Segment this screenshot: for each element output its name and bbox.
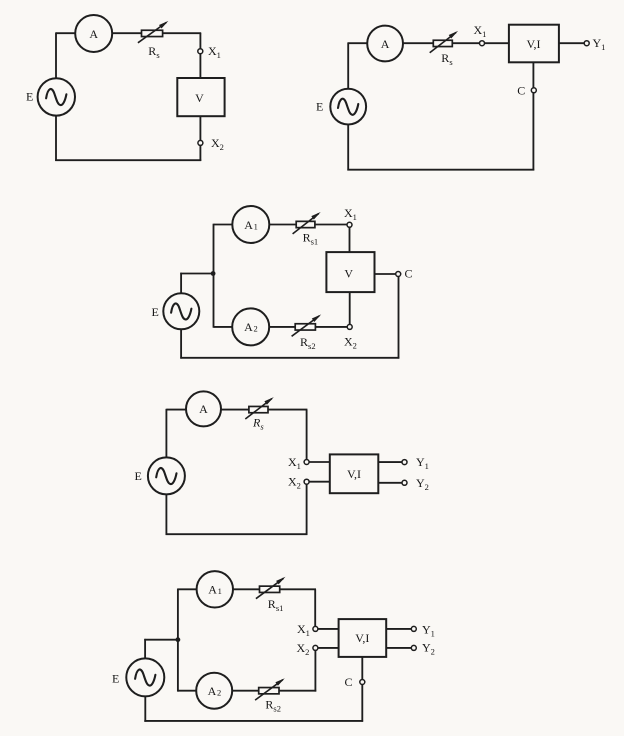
node Y1 (circuit 5) — [411, 626, 416, 631]
wire c4 X2-to-bottom — [306, 484, 308, 535]
label Rs1 (circuit 3) — [303, 231, 319, 247]
svg-text:X1: X1 — [344, 206, 357, 222]
voltmeter box V (circuit 3) — [326, 252, 374, 292]
svg-text:E: E — [26, 90, 33, 104]
wire c2 left vertical lower — [347, 124, 349, 170]
AC source E (circuit 2) — [330, 89, 366, 125]
wire c2 C-to-bottom — [532, 93, 534, 171]
svg-text:E: E — [135, 469, 142, 483]
svg-text:E: E — [152, 305, 159, 319]
label Y2 (circuit 5) — [422, 641, 435, 657]
node X2 (circuit 1) — [198, 140, 203, 145]
svg-text:X2: X2 — [211, 136, 224, 152]
wire c3 E vertical upper — [180, 273, 182, 294]
svg-text:A: A — [199, 402, 208, 416]
svg-text:X1: X1 — [474, 23, 487, 39]
wire c2 left vertical upper — [347, 42, 349, 89]
svg-text:X1: X1 — [208, 44, 221, 60]
wire c1 bottom — [55, 159, 201, 161]
node Y1 (circuit 4) — [402, 460, 407, 465]
label Rs2 (circuit 5) — [265, 698, 281, 714]
wire c4 X2-to-box — [309, 481, 330, 483]
svg-text:1: 1 — [254, 221, 258, 231]
wire c3 E vertical lower — [180, 329, 182, 358]
label X1 (circuit 2) — [474, 23, 487, 39]
label Y2 (circuit 4) — [416, 476, 429, 492]
svg-text:A: A — [208, 684, 217, 698]
label E (circuit 2) — [316, 99, 323, 113]
svg-text:A: A — [244, 320, 253, 334]
variable resistor Rs (circuit 2) — [430, 31, 458, 53]
wire c5 junction-to-E — [144, 639, 178, 641]
ammeter A1 (circuit 5) — [197, 571, 233, 607]
label Rs (circuit 2) — [441, 51, 452, 67]
node X1 (circuit 2) — [480, 41, 485, 46]
wire c5 E vertical lower — [144, 696, 146, 722]
node X1 (circuit 5) — [313, 626, 318, 631]
wire c5 box-to-C — [361, 657, 363, 680]
node C (circuit 2) — [531, 88, 536, 93]
svg-text:2: 2 — [217, 688, 221, 698]
svg-text:X2: X2 — [344, 335, 357, 351]
wire c4 box-to-Y2 — [378, 482, 402, 484]
wire c1 X1-to-Vbox — [199, 53, 201, 78]
wire c3 Rs2-to-X2 — [315, 326, 347, 328]
wire c3 X2-to-Vbox — [349, 292, 351, 325]
wire c4 left vertical lower — [165, 494, 167, 535]
node X2 (circuit 5) — [313, 645, 318, 650]
svg-text:Rs2: Rs2 — [300, 335, 316, 351]
label X1 (circuit 5) — [297, 622, 310, 638]
ammeter A (circuit 2) — [367, 26, 403, 62]
node Y2 (circuit 5) — [411, 645, 416, 650]
wire c3 Rs1-to-X1 — [315, 224, 347, 226]
wire c4 right vertical to X1 — [306, 410, 308, 460]
node X1 (circuit 4) — [304, 460, 309, 465]
wire c5 top branch left — [178, 588, 197, 590]
svg-text:X2: X2 — [288, 475, 301, 491]
wire c5 corner-to-X1 — [314, 589, 316, 626]
wire c4 bottom — [166, 533, 308, 535]
measuring box V,I (circuit 5) — [339, 619, 387, 657]
wire c1 X2-to-bottom — [199, 145, 201, 161]
wire c3 junction-to-E — [180, 273, 213, 275]
AC source E (circuit 4) — [148, 457, 185, 494]
ammeter A2 (circuit 5) — [196, 673, 232, 709]
svg-text:A: A — [244, 218, 253, 232]
wire c3 C-to-bottom — [398, 276, 400, 358]
svg-text:E: E — [112, 672, 119, 686]
svg-text:C: C — [345, 675, 353, 689]
wire c3 lower branch left — [214, 326, 232, 328]
wire c5 X2-to-box — [318, 647, 339, 649]
wire c1 A-to-Rs — [112, 32, 141, 34]
variable resistor Rs (circuit 4) — [245, 397, 273, 419]
label E (circuit 5) — [112, 672, 119, 686]
node X1 (circuit 1) — [198, 49, 203, 54]
label E (circuit 3) — [152, 305, 159, 319]
node C (circuit 3) — [396, 272, 401, 277]
ammeter A1 (circuit 3) — [232, 206, 269, 243]
svg-text:A: A — [89, 27, 98, 41]
wire c5 C-to-bottom — [361, 684, 363, 722]
svg-text:X1: X1 — [288, 455, 301, 471]
label C (circuit 5) — [345, 675, 353, 689]
wire c5 X2-down — [314, 650, 316, 692]
wire c2 box-to-Y1 — [559, 42, 585, 44]
label Y1 (circuit 2) — [593, 36, 606, 52]
label E (circuit 4) — [135, 469, 142, 483]
AC source E (circuit 1) — [38, 78, 75, 115]
label X2 (circuit 5) — [297, 641, 310, 657]
wire c5 box-to-Y2 — [386, 647, 411, 649]
label Y1 (circuit 4) — [416, 455, 429, 471]
variable resistor Rs2 (circuit 5) — [255, 678, 285, 700]
wire c3 X1-to-Vbox — [349, 227, 351, 252]
wire c1 left vertical upper — [55, 32, 57, 78]
wire c5 Rs2-to-corner — [279, 690, 316, 692]
wire c4 top E-to-A — [166, 409, 186, 411]
node Y1 (circuit 2) — [584, 41, 589, 46]
svg-text:Rs: Rs — [148, 44, 159, 60]
svg-text:C: C — [517, 84, 525, 98]
label E (circuit 1) — [26, 90, 33, 104]
svg-text:Rs2: Rs2 — [265, 698, 281, 714]
node Y2 (circuit 4) — [402, 480, 407, 485]
wire c3 mid vertical — [213, 224, 215, 328]
variable resistor Rs1 (circuit 3) — [293, 212, 321, 234]
junction dot (circuit 3) — [211, 271, 216, 276]
voltmeter box V (circuit 1) — [177, 78, 224, 116]
label Y1 (circuit 5) — [422, 622, 435, 638]
label Rs (circuit 4) — [252, 416, 264, 432]
variable resistor Rs2 (circuit 3) — [292, 314, 322, 336]
label X1 (circuit 1) — [208, 44, 221, 60]
wire c2 Rs-to-X1 — [452, 42, 480, 44]
wire c4 box-to-Y1 — [378, 461, 402, 463]
wire c5 lower branch left — [178, 690, 197, 692]
label X2 (circuit 4) — [288, 475, 301, 491]
wire c4 left vertical upper — [165, 409, 167, 458]
ammeter A2 (circuit 3) — [232, 308, 269, 345]
wire c5 Rs1-to-corner — [280, 588, 316, 590]
wire c5 box-to-Y1 — [386, 628, 411, 630]
node X2 (circuit 4) — [304, 479, 309, 484]
wire c2 box-to-C — [532, 62, 534, 88]
wire c5 E vertical upper — [144, 639, 146, 659]
svg-text:X2: X2 — [297, 641, 310, 657]
measuring box V,I (circuit 4) — [330, 454, 379, 493]
svg-text:A: A — [381, 37, 390, 51]
wire c5 A2-to-Rs2 — [232, 690, 259, 692]
node C (circuit 5) — [360, 680, 365, 685]
variable resistor Rs1 (circuit 5) — [256, 577, 286, 599]
svg-text:V: V — [344, 267, 353, 281]
label Rs (circuit 1) — [148, 44, 159, 60]
wire c1 right vertical to X1 — [199, 33, 201, 49]
wire c3 A2-to-Rs2 — [270, 326, 296, 328]
ammeter A (circuit 1) — [75, 15, 112, 52]
label X1 (circuit 4) — [288, 455, 301, 471]
label C (circuit 3) — [405, 267, 413, 281]
svg-text:Rs1: Rs1 — [303, 231, 319, 247]
svg-text:Y1: Y1 — [422, 622, 435, 638]
AC source E (circuit 3) — [163, 293, 199, 329]
wire c5 branch vertical — [177, 589, 179, 692]
wire c1 Rs-to-corner — [163, 32, 202, 34]
wire c5 X1-to-box — [318, 628, 339, 630]
wire c1 Vbox-to-X2 — [199, 116, 201, 141]
wire c3 Vbox-to-C — [375, 273, 397, 275]
wire c2 top E-to-A — [348, 42, 367, 44]
svg-text:Y2: Y2 — [416, 476, 429, 492]
wire c5 bottom — [144, 720, 363, 722]
wire c2 bottom — [347, 169, 534, 171]
wire c1 top segment E-to-A — [56, 32, 75, 34]
wire c2 X1-to-box — [484, 42, 509, 44]
svg-text:Rs: Rs — [252, 416, 264, 432]
svg-text:X1: X1 — [297, 622, 310, 638]
svg-text:V,I: V,I — [355, 631, 369, 645]
svg-text:Rs: Rs — [441, 51, 452, 67]
measuring box V,I (circuit 2) — [509, 25, 559, 63]
AC source E (circuit 5) — [126, 658, 164, 696]
svg-text:1: 1 — [218, 586, 222, 596]
svg-text:V,I: V,I — [347, 467, 361, 481]
node X2 (circuit 3) — [347, 324, 352, 329]
svg-text:E: E — [316, 99, 323, 113]
svg-text:Y1: Y1 — [593, 36, 606, 52]
wire c4 Rs-to-corner — [268, 409, 307, 411]
svg-text:V,I: V,I — [526, 37, 540, 51]
svg-text:C: C — [405, 267, 413, 281]
svg-text:Y1: Y1 — [416, 455, 429, 471]
wire c5 A1-to-Rs1 — [233, 588, 260, 590]
wire c4 X1-to-box — [309, 461, 330, 463]
wire c3 top branch left — [214, 224, 233, 226]
wire c4 A-to-Rs — [221, 409, 249, 411]
wire c1 left vertical lower — [55, 115, 57, 161]
wire c2 A-to-Rs — [403, 42, 434, 44]
label X2 (circuit 3) — [344, 335, 357, 351]
wire c3 bottom — [180, 357, 399, 359]
svg-text:V: V — [195, 91, 204, 105]
wire c3 A1-to-Rs1 — [269, 224, 296, 226]
junction dot (circuit 5) — [176, 637, 181, 642]
label Rs1 (circuit 5) — [268, 597, 284, 613]
label Rs2 (circuit 3) — [300, 335, 316, 351]
variable resistor Rs (circuit 1) — [138, 21, 169, 43]
svg-text:2: 2 — [254, 324, 258, 334]
label X2 (circuit 1) — [211, 136, 224, 152]
label X1 (circuit 3) — [344, 206, 357, 222]
node X1 (circuit 3) — [347, 222, 352, 227]
svg-text:Y2: Y2 — [422, 641, 435, 657]
svg-text:Rs1: Rs1 — [268, 597, 284, 613]
svg-text:A: A — [208, 583, 217, 597]
label C (circuit 2) — [517, 84, 525, 98]
ammeter A (circuit 4) — [186, 391, 221, 426]
